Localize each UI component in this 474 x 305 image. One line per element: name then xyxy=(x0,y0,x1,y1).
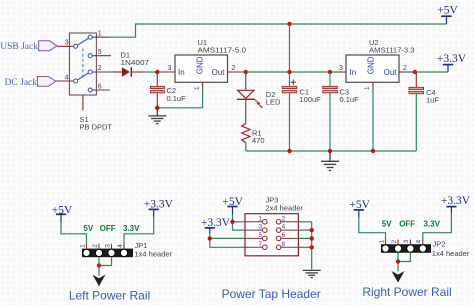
svg-text:5: 5 xyxy=(258,232,262,239)
power rail arrow right xyxy=(392,271,405,283)
svg-text:3: 3 xyxy=(403,239,410,243)
junction JP3 rail pin8 xyxy=(310,245,314,249)
header JP3 2x4 xyxy=(245,214,298,256)
svg-text:470: 470 xyxy=(252,136,265,145)
wire top rail down to C1 xyxy=(289,24,291,86)
capacitor C2 xyxy=(150,72,164,108)
svg-text:3.3V: 3.3V xyxy=(123,224,140,233)
junction JP3 rail pin6 xyxy=(310,236,314,240)
wire +3.3V to JP2 pin4 xyxy=(423,213,452,240)
JP3 gnd rail vertical xyxy=(311,222,313,270)
junction JP3 rail pin4 xyxy=(310,228,314,232)
svg-text:1: 1 xyxy=(79,244,86,248)
regulator U2 AMS1117-3.3 xyxy=(346,55,399,82)
svg-text:AMS1117-3.3: AMS1117-3.3 xyxy=(369,45,415,54)
svg-text:1: 1 xyxy=(98,30,102,37)
svg-text:8: 8 xyxy=(282,241,286,248)
svg-text:2x4 header: 2x4 header xyxy=(266,204,304,213)
port USB Jack xyxy=(0,41,57,52)
junction C3 at +5V rail xyxy=(328,70,332,74)
svg-text:Out: Out xyxy=(384,68,398,77)
U1 pin2 out wire xyxy=(228,71,246,73)
port DC Jack xyxy=(5,77,56,88)
power +3.3V top right xyxy=(437,53,467,72)
ground at mid rail xyxy=(321,151,339,171)
wire JP2 pin3 down xyxy=(398,253,410,262)
regulator U1 AMS1117-5.0 xyxy=(175,55,228,82)
power +5V left rail xyxy=(52,204,73,222)
svg-text:3: 3 xyxy=(104,244,111,248)
power +3.3V right rail xyxy=(441,195,471,213)
svg-text:2: 2 xyxy=(403,65,407,72)
svg-text:1: 1 xyxy=(194,86,201,90)
svg-text:1: 1 xyxy=(364,86,371,90)
wire U2 GND to gnd rail xyxy=(372,89,374,152)
junction top rail C1 xyxy=(287,22,291,26)
ground at JP3 xyxy=(303,270,321,277)
power +5V tap header xyxy=(222,196,243,214)
svg-text:0.1uF: 0.1uF xyxy=(167,94,187,103)
wire +5V to JP1 pin1 xyxy=(61,222,87,244)
U2 GND pin stub xyxy=(372,82,374,88)
svg-text:4: 4 xyxy=(117,244,124,248)
junction node D2 tap xyxy=(244,70,248,74)
svg-text:AMS1117-5.0: AMS1117-5.0 xyxy=(198,45,247,54)
junction C2 ground xyxy=(155,106,159,110)
svg-text:Right Power Rail: Right Power Rail xyxy=(362,285,451,299)
LED D2 xyxy=(237,90,263,108)
power +3.3V left rail xyxy=(144,198,174,217)
junction U2 out / C4 xyxy=(413,70,417,74)
power +5V top right xyxy=(437,5,458,25)
svg-text:Out: Out xyxy=(212,68,226,77)
svg-text:1N4007: 1N4007 xyxy=(121,58,150,67)
diode D1 xyxy=(113,67,143,77)
svg-text:2: 2 xyxy=(282,215,286,222)
svg-text:Left Power Rail: Left Power Rail xyxy=(69,289,150,303)
svg-text:1: 1 xyxy=(258,215,262,222)
svg-text:+3.3V: +3.3V xyxy=(144,198,174,210)
junction gnd rail U2 xyxy=(371,149,375,153)
resistor R1 xyxy=(242,124,250,143)
svg-text:3: 3 xyxy=(168,65,172,72)
switch S1 PB DPDT xyxy=(56,33,111,111)
wire +5V to JP3 pins 1,3 xyxy=(232,214,234,222)
switch pin numbers xyxy=(65,30,102,90)
wire +5V to JP2 pin1 xyxy=(359,217,386,240)
svg-text:OFF: OFF xyxy=(399,220,415,229)
gnd rail wire xyxy=(246,150,416,152)
wire to U2 pin3 xyxy=(338,71,346,73)
svg-text:0.1uF: 0.1uF xyxy=(340,95,360,104)
svg-text:Power Tap Header: Power Tap Header xyxy=(222,287,321,301)
header JP2 1x4 xyxy=(381,240,431,253)
capacitor C4 xyxy=(409,72,424,151)
wire junction to +3.3V xyxy=(415,71,448,73)
wire JP1 pin3 down xyxy=(99,257,112,265)
junction JP2 rail xyxy=(396,259,400,263)
svg-text:3: 3 xyxy=(339,65,343,72)
svg-text:3: 3 xyxy=(65,40,69,47)
svg-text:In: In xyxy=(178,68,185,77)
svg-text:JP2: JP2 xyxy=(433,240,446,249)
svg-text:1: 1 xyxy=(378,239,385,243)
power +5V right rail xyxy=(349,199,370,217)
wire switch pin1 to +5V top rail xyxy=(110,24,447,37)
wire R1 to gnd rail xyxy=(245,143,247,151)
svg-text:4: 4 xyxy=(65,74,69,81)
svg-text:In: In xyxy=(350,68,357,77)
svg-text:3.3V: 3.3V xyxy=(423,220,440,229)
svg-text:2: 2 xyxy=(92,244,99,248)
power +3.3V tap header xyxy=(201,217,231,233)
wire +3.3V to JP3 pins 5,7 xyxy=(209,233,211,238)
svg-text:100uF: 100uF xyxy=(300,95,322,104)
header JP1 1x4 xyxy=(82,244,133,257)
wire junction to LED anode xyxy=(245,72,247,90)
junction gnd rail C1 xyxy=(287,149,291,153)
junction JP3 +5V xyxy=(230,220,234,224)
svg-text:+3.3V: +3.3V xyxy=(441,195,471,207)
wire +5V rail U1 to U2 xyxy=(246,71,338,73)
svg-text:2: 2 xyxy=(232,65,236,72)
svg-text:+3.3V: +3.3V xyxy=(437,53,467,65)
wire U1 GND to C2 ground node xyxy=(157,89,202,108)
power rail arrow left xyxy=(93,275,106,287)
capacitor C3 xyxy=(323,72,338,151)
junction node C2/U1 xyxy=(155,70,159,74)
svg-text:6: 6 xyxy=(282,232,286,239)
svg-text:1x4 header: 1x4 header xyxy=(432,249,470,258)
junction JP1 rail xyxy=(97,263,101,267)
svg-text:3: 3 xyxy=(258,224,262,231)
svg-text:2: 2 xyxy=(98,65,102,72)
U2 pin2 out wire xyxy=(399,71,415,73)
svg-text:4: 4 xyxy=(282,224,286,231)
junction gnd rail C3 xyxy=(328,149,332,153)
wire node to U1 pin3 xyxy=(156,71,175,73)
JP3 pin numbers xyxy=(258,215,285,248)
svg-text:GND: GND xyxy=(366,56,375,74)
wire switch pin2 to D1 xyxy=(110,71,117,73)
junction JP3 +3.3V xyxy=(208,236,212,240)
svg-text:2: 2 xyxy=(391,239,398,243)
svg-text:1uF: 1uF xyxy=(426,96,439,105)
svg-text:LED: LED xyxy=(266,98,281,107)
capacitor C1 polarized xyxy=(282,80,297,152)
wire +3.3V to JP1 pin4 xyxy=(124,217,154,244)
wire JP2 pin2 down xyxy=(397,253,399,272)
svg-text:OFF: OFF xyxy=(100,224,116,233)
svg-text:+5V: +5V xyxy=(437,5,458,17)
svg-text:GND: GND xyxy=(196,56,205,74)
svg-text:1x4 header: 1x4 header xyxy=(135,249,173,258)
U1 GND pin stub xyxy=(202,82,204,88)
svg-text:USB Jack: USB Jack xyxy=(0,42,38,52)
svg-text:7: 7 xyxy=(258,241,262,248)
svg-text:4: 4 xyxy=(416,239,423,243)
svg-text:DC Jack: DC Jack xyxy=(5,78,38,88)
junction C1 at +5V rail xyxy=(287,70,291,74)
wires JP3 right pins to gnd rail xyxy=(298,221,311,223)
svg-text:5: 5 xyxy=(98,49,102,56)
wire D1 to node xyxy=(143,71,156,73)
svg-text:6: 6 xyxy=(98,83,102,90)
svg-text:PB DPDT: PB DPDT xyxy=(80,123,113,132)
svg-text:5V: 5V xyxy=(382,220,392,229)
svg-text:5V: 5V xyxy=(83,224,93,233)
ground at C2 xyxy=(148,108,166,124)
wire LED cathode to R1 xyxy=(245,99,247,123)
wire JP1 pin2 down xyxy=(98,257,100,276)
